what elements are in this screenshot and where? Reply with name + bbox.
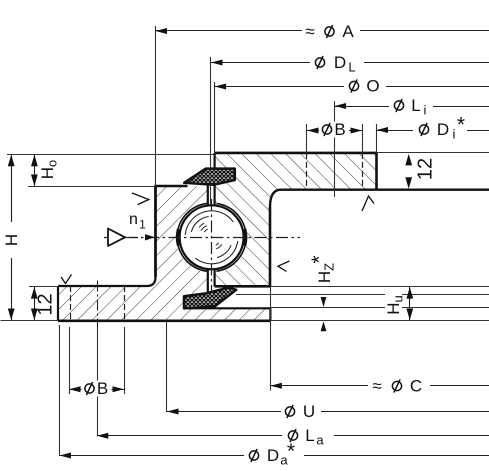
dimension line C <box>270 385 489 387</box>
svg-text:≈: ≈ <box>305 22 314 41</box>
svg-text:L: L <box>348 60 355 75</box>
ball clearance (white) <box>176 202 248 274</box>
label Hu <box>385 292 402 318</box>
svg-text:O: O <box>366 77 379 96</box>
label dia La <box>288 431 297 440</box>
ball shading arcs lower-right <box>195 241 238 264</box>
dimension H <box>11 154 13 222</box>
lower seal <box>184 288 236 309</box>
ball <box>180 205 244 269</box>
raceway arc left <box>177 203 207 271</box>
svg-text:≈: ≈ <box>372 377 381 396</box>
svg-text:12: 12 <box>415 158 437 180</box>
label n1 <box>129 211 138 228</box>
svg-text:1: 1 <box>139 218 146 232</box>
label approx dia A <box>305 22 314 41</box>
label dia DL <box>315 58 324 67</box>
svg-text:n: n <box>129 211 138 228</box>
svg-text:*: * <box>287 440 295 463</box>
dimension line DL <box>211 62 489 64</box>
label dia Di <box>419 125 428 134</box>
svg-text:B: B <box>97 379 108 398</box>
label 12 bottom left <box>35 293 57 315</box>
label 12 top right <box>415 158 437 180</box>
surface mark on outer ring OD <box>132 193 149 205</box>
outer ring outline <box>58 285 147 287</box>
surface mark on inner ring bore side <box>278 261 290 272</box>
surface mark under inner flange <box>362 196 374 211</box>
label approx dia C <box>372 377 381 396</box>
svg-text:D: D <box>437 120 449 139</box>
svg-text:B: B <box>334 120 345 139</box>
dimension line U <box>167 411 489 413</box>
raceway contact left <box>178 229 179 245</box>
upper seal <box>184 169 235 185</box>
bolt hole inner ring edges (dashed) <box>306 153 308 190</box>
vertical extension lines <box>155 26 157 186</box>
svg-text:*: * <box>457 114 465 137</box>
svg-text:i: i <box>453 127 456 142</box>
label Ho <box>38 160 59 180</box>
label dia B top <box>322 125 331 134</box>
svg-text:12: 12 <box>35 293 57 315</box>
bolt hole outer ring centerline <box>97 281 99 328</box>
dimension line A <box>156 30 489 32</box>
rotation symbol n1 triangle <box>108 229 125 247</box>
raceway contact right <box>244 229 245 245</box>
surface mark on outer flange top <box>61 275 72 284</box>
svg-text:a: a <box>316 433 324 448</box>
ball centerline horizontal <box>104 237 300 239</box>
svg-text:L: L <box>305 426 314 445</box>
svg-text:D: D <box>267 446 279 465</box>
horizontal extension lines <box>7 154 215 156</box>
svg-text:*: * <box>308 255 331 263</box>
dimension line La <box>97 435 489 437</box>
dimension line Di <box>377 130 489 132</box>
dimension line Da <box>60 455 489 457</box>
label HZ <box>317 256 333 286</box>
svg-text:L: L <box>411 96 420 115</box>
outer ring section (hatched) <box>58 186 270 321</box>
dimension Hu <box>409 286 411 321</box>
n1 leader line <box>130 237 146 239</box>
extension lines B bottom <box>69 327 71 394</box>
ball shading arcs upper-left <box>185 211 233 235</box>
dimension line B top <box>307 130 362 132</box>
svg-text:C: C <box>410 377 422 396</box>
lower seal (white backing) <box>184 288 236 309</box>
svg-text:A: A <box>342 22 354 41</box>
dimension line Li <box>335 106 489 108</box>
label dia Da <box>249 451 258 460</box>
svg-text:D: D <box>334 53 346 72</box>
dimension Ho <box>34 154 36 187</box>
ball centerline vertical <box>211 199 213 292</box>
inner ring section (hatched) <box>215 153 377 286</box>
label H <box>2 234 21 246</box>
label dia Li <box>394 101 403 110</box>
dimension 12 top right <box>405 154 412 166</box>
raceway arc right <box>216 203 246 271</box>
svg-text:U: U <box>303 402 315 421</box>
label dia B bottom <box>85 384 94 393</box>
upper seal (white backing) <box>184 169 235 185</box>
dimension HZ <box>321 297 327 307</box>
label dia U <box>285 407 294 416</box>
label dia O <box>349 81 358 90</box>
dimension line B bottom <box>69 389 124 391</box>
dimension 12 bottom left <box>34 286 36 321</box>
inner ring outline <box>215 152 377 155</box>
dimension line O <box>215 86 489 88</box>
svg-text:H: H <box>2 234 21 246</box>
bolt hole outer ring edges (dashed) <box>70 286 72 321</box>
svg-text:i: i <box>424 103 427 118</box>
ball glint marks <box>204 229 208 232</box>
